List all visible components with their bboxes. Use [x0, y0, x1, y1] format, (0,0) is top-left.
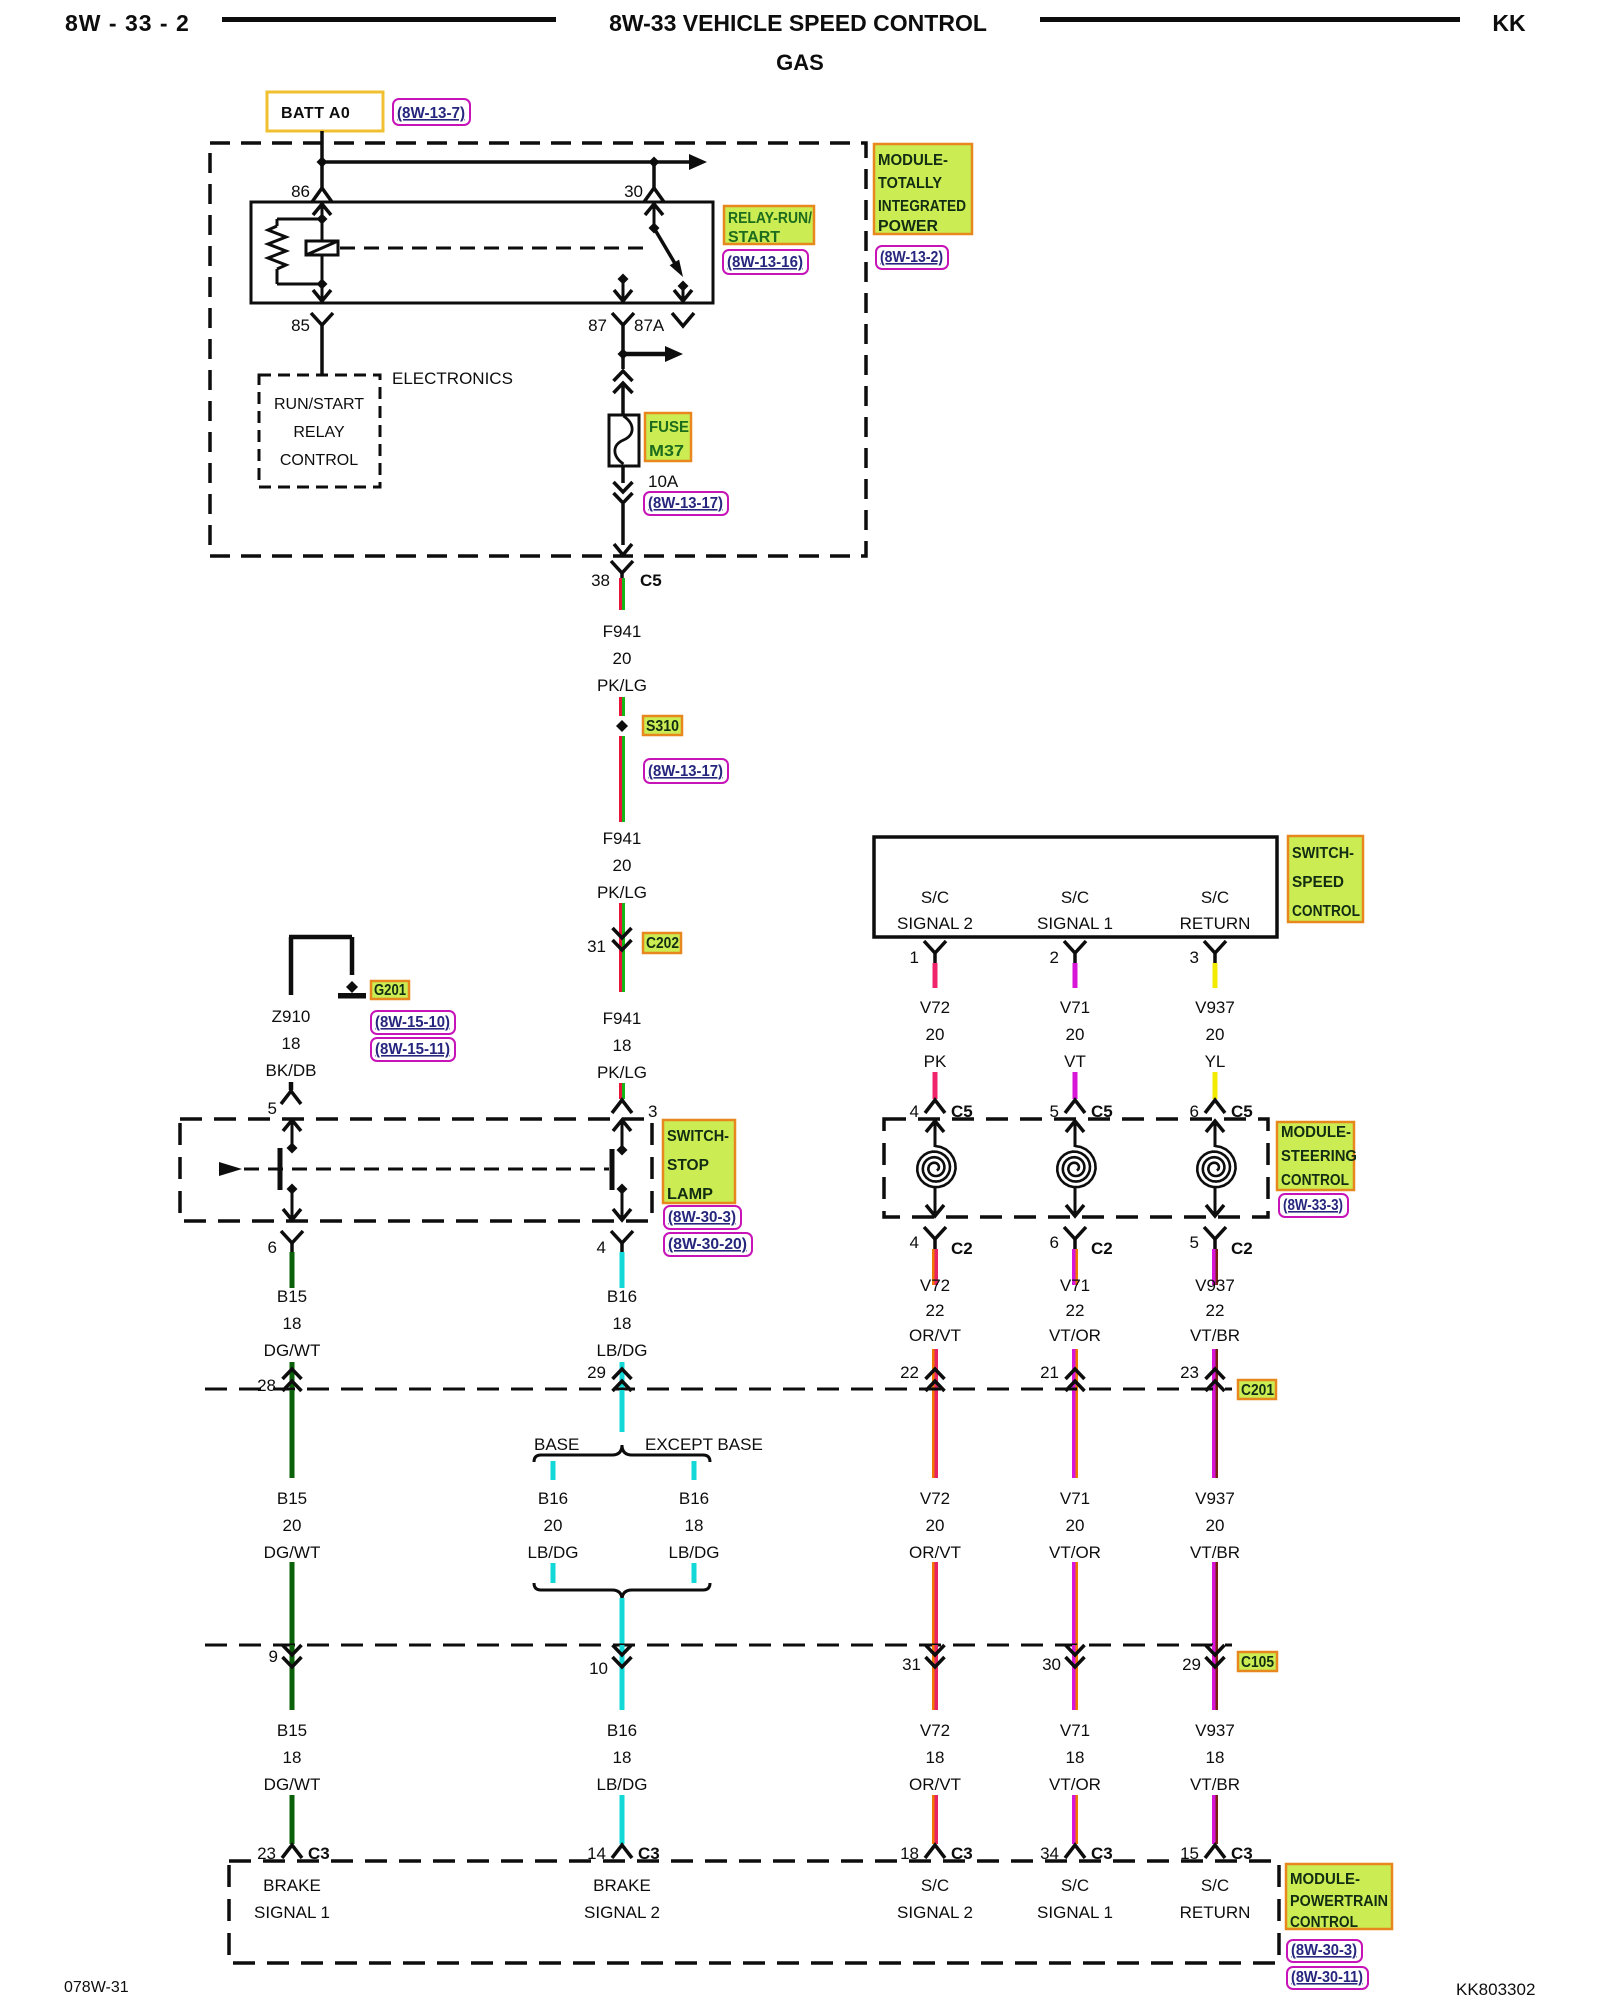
- svg-text:V937: V937: [1195, 1721, 1235, 1740]
- svg-text:V71: V71: [1060, 1489, 1090, 1508]
- svg-text:10A: 10A: [648, 472, 679, 491]
- svg-text:VT/OR: VT/OR: [1049, 1326, 1101, 1345]
- svg-text:20: 20: [1206, 1025, 1225, 1044]
- svg-text:VT/BR: VT/BR: [1190, 1326, 1240, 1345]
- svg-text:10: 10: [589, 1659, 608, 1678]
- svg-text:20: 20: [926, 1025, 945, 1044]
- svg-text:V72: V72: [920, 1489, 950, 1508]
- svg-text:20: 20: [613, 856, 632, 875]
- svg-text:8W-33 VEHICLE SPEED CONTROL: 8W-33 VEHICLE SPEED CONTROL: [609, 10, 987, 36]
- svg-text:6: 6: [268, 1238, 277, 1257]
- svg-text:20: 20: [283, 1516, 302, 1535]
- svg-text:29: 29: [587, 1363, 606, 1382]
- svg-text:20: 20: [1206, 1516, 1225, 1535]
- svg-text:RUN/START: RUN/START: [274, 396, 364, 413]
- svg-text:BK/DB: BK/DB: [265, 1061, 316, 1080]
- svg-text:18: 18: [1066, 1748, 1085, 1767]
- svg-text:078W-31: 078W-31: [64, 1979, 129, 1996]
- svg-text:20: 20: [1066, 1025, 1085, 1044]
- svg-text:Z910: Z910: [272, 1007, 311, 1026]
- svg-text:BRAKE: BRAKE: [593, 1876, 651, 1895]
- svg-text:C2: C2: [1091, 1239, 1113, 1258]
- svg-text:KK803302: KK803302: [1456, 1980, 1535, 1999]
- svg-text:C2: C2: [1231, 1239, 1253, 1258]
- svg-text:18: 18: [282, 1034, 301, 1053]
- svg-text:BATT A0: BATT A0: [281, 105, 350, 122]
- svg-text:B16: B16: [607, 1721, 637, 1740]
- svg-text:VT/BR: VT/BR: [1190, 1543, 1240, 1562]
- svg-text:B16: B16: [679, 1489, 709, 1508]
- svg-text:3: 3: [1190, 948, 1199, 967]
- svg-text:18: 18: [613, 1036, 632, 1055]
- svg-text:MODULE-: MODULE-: [878, 152, 948, 169]
- svg-text:85: 85: [291, 316, 310, 335]
- svg-text:PK/LG: PK/LG: [597, 676, 647, 695]
- svg-text:POWER: POWER: [878, 218, 938, 235]
- svg-text:V937: V937: [1195, 1276, 1235, 1295]
- svg-text:V71: V71: [1060, 1721, 1090, 1740]
- svg-text:SWITCH-: SWITCH-: [1292, 845, 1354, 862]
- svg-text:F941: F941: [603, 622, 642, 641]
- svg-text:87: 87: [588, 316, 607, 335]
- svg-text:OR/VT: OR/VT: [909, 1543, 961, 1562]
- svg-text:POWERTRAIN: POWERTRAIN: [1290, 1893, 1388, 1910]
- svg-text:C5: C5: [640, 571, 662, 590]
- svg-text:22: 22: [900, 1363, 919, 1382]
- svg-text:(8W-30-20): (8W-30-20): [668, 1236, 747, 1253]
- svg-text:CONTROL: CONTROL: [1290, 1914, 1358, 1931]
- svg-text:(8W-30-3): (8W-30-3): [1291, 1942, 1357, 1959]
- svg-text:18: 18: [283, 1748, 302, 1767]
- svg-text:28: 28: [257, 1376, 276, 1395]
- svg-text:B16: B16: [607, 1287, 637, 1306]
- svg-text:SIGNAL 1: SIGNAL 1: [254, 1903, 330, 1922]
- svg-text:START: START: [728, 229, 780, 246]
- svg-text:20: 20: [1066, 1516, 1085, 1535]
- svg-text:V937: V937: [1195, 1489, 1235, 1508]
- svg-text:CONTROL: CONTROL: [1281, 1172, 1349, 1189]
- svg-text:30: 30: [624, 182, 643, 201]
- svg-text:SIGNAL 2: SIGNAL 2: [897, 1903, 973, 1922]
- svg-text:S/C: S/C: [921, 888, 949, 907]
- svg-text:(8W-13-7): (8W-13-7): [397, 105, 465, 122]
- svg-text:23: 23: [1180, 1363, 1199, 1382]
- svg-text:ELECTRONICS: ELECTRONICS: [392, 369, 513, 388]
- svg-text:BASE: BASE: [534, 1435, 579, 1454]
- svg-text:(8W-30-3): (8W-30-3): [668, 1209, 736, 1226]
- svg-text:B15: B15: [277, 1489, 307, 1508]
- svg-text:20: 20: [926, 1516, 945, 1535]
- svg-text:VT/BR: VT/BR: [1190, 1775, 1240, 1794]
- svg-text:BRAKE: BRAKE: [263, 1876, 321, 1895]
- svg-text:CONTROL: CONTROL: [1292, 903, 1360, 920]
- svg-text:S/C: S/C: [1201, 888, 1229, 907]
- svg-text:5: 5: [268, 1099, 277, 1118]
- svg-text:EXCEPT BASE: EXCEPT BASE: [645, 1435, 763, 1454]
- svg-text:VT/OR: VT/OR: [1049, 1775, 1101, 1794]
- svg-text:OR/VT: OR/VT: [909, 1775, 961, 1794]
- svg-text:G201: G201: [374, 982, 406, 999]
- svg-text:4: 4: [910, 1233, 919, 1252]
- svg-text:(8W-13-17): (8W-13-17): [648, 763, 723, 780]
- svg-text:5: 5: [1190, 1233, 1199, 1252]
- svg-text:CONTROL: CONTROL: [280, 452, 358, 469]
- svg-text:22: 22: [926, 1301, 945, 1320]
- svg-text:18: 18: [613, 1748, 632, 1767]
- svg-text:B16: B16: [538, 1489, 568, 1508]
- svg-text:31: 31: [587, 937, 606, 956]
- svg-text:PK/LG: PK/LG: [597, 1063, 647, 1082]
- svg-text:RELAY: RELAY: [293, 424, 345, 441]
- svg-text:4: 4: [597, 1238, 606, 1257]
- svg-text:(8W-13-2): (8W-13-2): [880, 249, 943, 266]
- svg-text:V72: V72: [920, 1276, 950, 1295]
- svg-text:18: 18: [283, 1314, 302, 1333]
- svg-text:29: 29: [1182, 1655, 1201, 1674]
- svg-text:SIGNAL 1: SIGNAL 1: [1037, 1903, 1113, 1922]
- svg-text:31: 31: [902, 1655, 921, 1674]
- svg-text:PK/LG: PK/LG: [597, 883, 647, 902]
- svg-text:OR/VT: OR/VT: [909, 1326, 961, 1345]
- svg-text:30: 30: [1042, 1655, 1061, 1674]
- svg-text:SWITCH-: SWITCH-: [667, 1128, 729, 1145]
- svg-text:20: 20: [613, 649, 632, 668]
- svg-text:(8W-15-10): (8W-15-10): [375, 1014, 450, 1031]
- svg-text:STEERING: STEERING: [1281, 1148, 1357, 1165]
- svg-text:(8W-13-17): (8W-13-17): [648, 495, 723, 512]
- svg-text:18: 18: [613, 1314, 632, 1333]
- svg-text:S/C: S/C: [1201, 1876, 1229, 1895]
- svg-text:RELAY-RUN/: RELAY-RUN/: [728, 210, 812, 227]
- svg-text:V937: V937: [1195, 998, 1235, 1017]
- svg-text:DG/WT: DG/WT: [264, 1341, 321, 1360]
- svg-text:FUSE: FUSE: [649, 419, 689, 436]
- svg-text:C202: C202: [646, 935, 679, 952]
- svg-text:6: 6: [1050, 1233, 1059, 1252]
- svg-text:S/C: S/C: [1061, 1876, 1089, 1895]
- svg-text:MODULE-: MODULE-: [1281, 1124, 1351, 1141]
- svg-text:86: 86: [291, 182, 310, 201]
- svg-text:YL: YL: [1205, 1052, 1226, 1071]
- svg-text:DG/WT: DG/WT: [264, 1775, 321, 1794]
- svg-text:RETURN: RETURN: [1180, 1903, 1251, 1922]
- svg-text:RETURN: RETURN: [1180, 914, 1251, 933]
- svg-text:GAS: GAS: [776, 50, 824, 75]
- svg-text:F941: F941: [603, 1009, 642, 1028]
- svg-text:B15: B15: [277, 1287, 307, 1306]
- svg-text:STOP: STOP: [667, 1157, 709, 1174]
- svg-text:C201: C201: [1241, 1382, 1274, 1399]
- svg-text:(8W-30-11): (8W-30-11): [1291, 1969, 1363, 1986]
- svg-text:2: 2: [1050, 948, 1059, 967]
- svg-text:V72: V72: [920, 1721, 950, 1740]
- svg-text:3: 3: [648, 1102, 657, 1121]
- svg-text:LB/DG: LB/DG: [596, 1775, 647, 1794]
- svg-text:B15: B15: [277, 1721, 307, 1740]
- svg-text:18: 18: [685, 1516, 704, 1535]
- svg-text:LB/DG: LB/DG: [527, 1543, 578, 1562]
- svg-text:V72: V72: [920, 998, 950, 1017]
- svg-text:4: 4: [910, 1102, 919, 1121]
- svg-text:KK: KK: [1492, 10, 1526, 36]
- svg-text:20: 20: [544, 1516, 563, 1535]
- svg-text:V71: V71: [1060, 1276, 1090, 1295]
- svg-text:22: 22: [1206, 1301, 1225, 1320]
- svg-text:(8W-33-3): (8W-33-3): [1283, 1197, 1343, 1214]
- svg-text:C105: C105: [1241, 1654, 1274, 1671]
- svg-text:18: 18: [926, 1748, 945, 1767]
- svg-text:8W - 33 - 2: 8W - 33 - 2: [65, 10, 190, 36]
- svg-text:V71: V71: [1060, 998, 1090, 1017]
- svg-text:DG/WT: DG/WT: [264, 1543, 321, 1562]
- svg-text:VT: VT: [1064, 1052, 1086, 1071]
- svg-text:SIGNAL 2: SIGNAL 2: [584, 1903, 660, 1922]
- svg-text:(8W-15-11): (8W-15-11): [375, 1041, 450, 1058]
- svg-text:22: 22: [1066, 1301, 1085, 1320]
- svg-text:SPEED: SPEED: [1292, 874, 1344, 891]
- svg-text:9: 9: [269, 1647, 278, 1666]
- svg-text:F941: F941: [603, 829, 642, 848]
- svg-text:MODULE-: MODULE-: [1290, 1871, 1360, 1888]
- svg-text:87A: 87A: [634, 316, 665, 335]
- svg-text:SIGNAL 2: SIGNAL 2: [897, 914, 973, 933]
- svg-text:1: 1: [910, 948, 919, 967]
- svg-text:SIGNAL 1: SIGNAL 1: [1037, 914, 1113, 933]
- svg-text:C2: C2: [951, 1239, 973, 1258]
- svg-text:M37: M37: [649, 443, 684, 460]
- svg-text:S310: S310: [646, 718, 679, 735]
- svg-text:(8W-13-16): (8W-13-16): [727, 254, 803, 271]
- svg-text:VT/OR: VT/OR: [1049, 1543, 1101, 1562]
- svg-text:LB/DG: LB/DG: [668, 1543, 719, 1562]
- svg-text:TOTALLY: TOTALLY: [878, 175, 942, 192]
- svg-text:18: 18: [1206, 1748, 1225, 1767]
- svg-text:S/C: S/C: [1061, 888, 1089, 907]
- svg-text:PK: PK: [924, 1052, 947, 1071]
- svg-text:38: 38: [591, 571, 610, 590]
- svg-text:INTEGRATED: INTEGRATED: [878, 198, 966, 215]
- svg-text:21: 21: [1040, 1363, 1059, 1382]
- svg-text:S/C: S/C: [921, 1876, 949, 1895]
- svg-text:LB/DG: LB/DG: [596, 1341, 647, 1360]
- svg-text:LAMP: LAMP: [667, 1186, 713, 1203]
